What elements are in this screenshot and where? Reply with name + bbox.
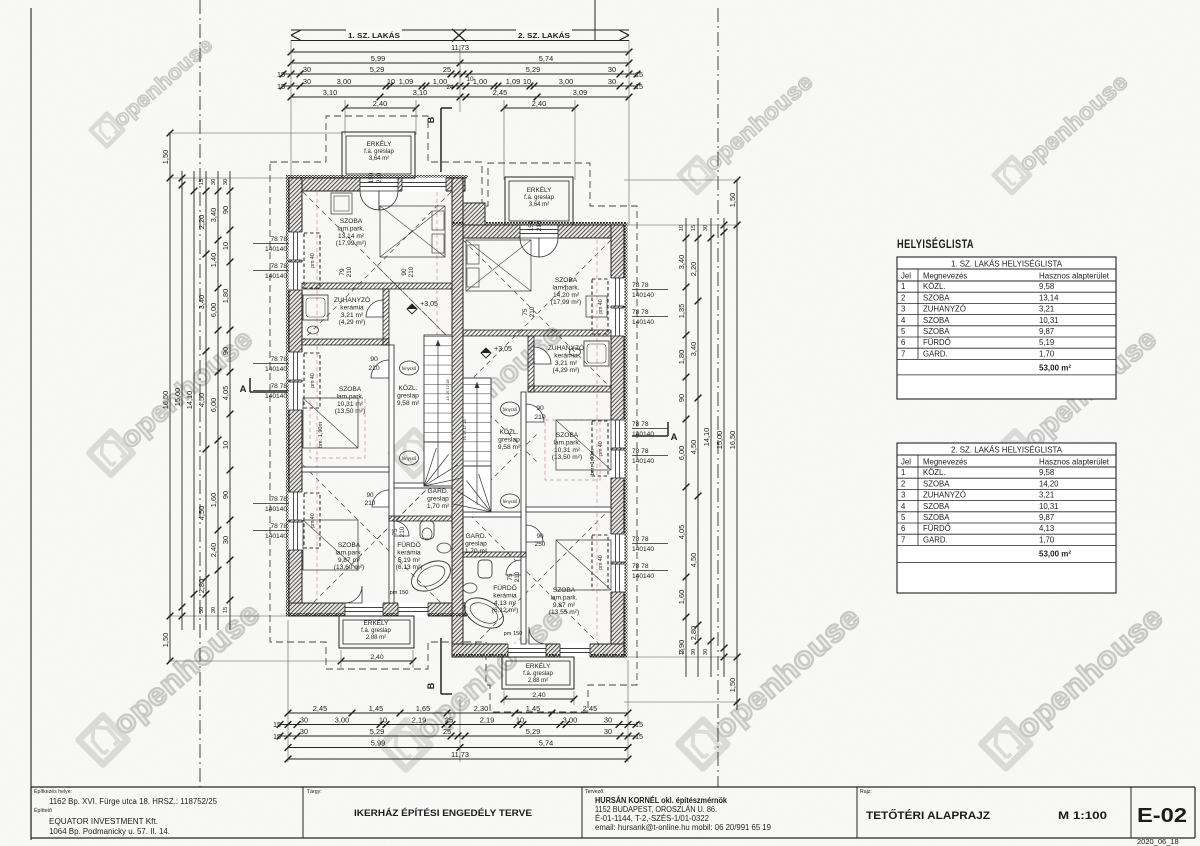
svg-text:140140: 140140 xyxy=(632,292,654,299)
svg-text:1,70 m²: 1,70 m² xyxy=(465,548,488,555)
left unit exterior wall left xyxy=(289,178,302,616)
svg-text:4,13: 4,13 xyxy=(1039,524,1054,533)
pm40 box left wall 1 xyxy=(304,233,320,288)
roof slope diagonal left unit middle xyxy=(377,266,451,340)
svg-text:GARD.: GARD. xyxy=(428,488,449,495)
svg-text:25: 25 xyxy=(443,727,451,736)
toilet right zuhanyzo xyxy=(570,348,581,356)
svg-text:IKERHÁZ ÉPÍTÉSI ENGEDÉLY TERVE: IKERHÁZ ÉPÍTÉSI ENGEDÉLY TERVE xyxy=(354,807,532,818)
svg-text:2,40: 2,40 xyxy=(532,99,546,108)
svg-text:ERKÉLY: ERKÉLY xyxy=(367,139,392,148)
svg-text:15: 15 xyxy=(635,70,643,79)
svg-text:f.á. greslap: f.á. greslap xyxy=(364,149,394,155)
svg-text:+3,05: +3,05 xyxy=(494,346,512,353)
svg-text:90: 90 xyxy=(221,347,230,355)
svg-text:30: 30 xyxy=(199,607,205,613)
right unit bottom szoba partition xyxy=(526,507,611,512)
site boundary dash-dot line right xyxy=(717,8,719,787)
svg-text:4,50: 4,50 xyxy=(197,393,206,407)
bed left middle room xyxy=(303,398,358,448)
svg-text:79: 79 xyxy=(339,268,346,276)
svg-text:210: 210 xyxy=(365,500,376,507)
svg-text:15 16 17 18: 15 16 17 18 xyxy=(462,419,467,441)
fenycso symbol left 1 xyxy=(400,361,419,375)
svg-text:10,31: 10,31 xyxy=(1039,502,1059,511)
svg-text:15: 15 xyxy=(223,607,229,613)
extension lines right dims xyxy=(624,179,739,181)
svg-text:210: 210 xyxy=(534,414,546,421)
svg-text:75: 75 xyxy=(392,528,399,536)
svg-text:f.á. greslap: f.á. greslap xyxy=(524,195,554,201)
svg-text:5: 5 xyxy=(901,327,906,336)
svg-text:email: hursank@t-online.hu mo: email: hursank@t-online.hu mobil: 06 20/… xyxy=(595,823,771,832)
svg-text:5,19 m²: 5,19 m² xyxy=(398,557,421,564)
svg-text:1. SZ. LAKÁS: 1. SZ. LAKÁS xyxy=(348,31,400,40)
svg-text:25: 25 xyxy=(445,715,453,724)
svg-text:(4,29 m²): (4,29 m²) xyxy=(553,367,580,374)
top dim line 5,99 / 5,74 xyxy=(291,62,629,64)
unit extent band 1.SZ.LAKAS / 2.SZ.LAKAS xyxy=(291,29,629,31)
svg-text:ZUHANYZÓ: ZUHANYZÓ xyxy=(923,491,966,500)
svg-text:78 78: 78 78 xyxy=(270,236,287,243)
svg-text:1. SZ. LAKÁS HELYISÉGLISTA: 1. SZ. LAKÁS HELYISÉGLISTA xyxy=(951,259,1062,269)
right wall windows pair 2 xyxy=(611,420,625,448)
svg-text:10: 10 xyxy=(516,715,524,724)
roof slope diagonal right unit middle xyxy=(463,388,537,462)
svg-text:1,50: 1,50 xyxy=(728,678,737,692)
svg-text:10: 10 xyxy=(221,242,230,250)
bottom dim 5,99 / 5,74 xyxy=(288,747,628,749)
right dim chain 15,00 xyxy=(723,218,725,677)
svg-text:fénycső: fénycső xyxy=(503,407,518,412)
left unit corridor wall xyxy=(389,345,394,603)
left unit stairs xyxy=(424,335,452,442)
bottom dim 30/5,29/25/5,29/30 xyxy=(280,735,636,737)
svg-text:3,21 m²: 3,21 m² xyxy=(555,360,578,367)
svg-text:lam.park.: lam.park. xyxy=(337,225,364,232)
svg-text:2,40: 2,40 xyxy=(373,99,387,108)
svg-text:pm 150: pm 150 xyxy=(504,631,523,637)
left wall windows pair 2 xyxy=(289,352,303,380)
dim 2,40 below right bottom balcony xyxy=(504,698,574,700)
svg-text:5,29: 5,29 xyxy=(526,65,540,74)
svg-text:SZOBA: SZOBA xyxy=(555,277,578,284)
svg-text:90: 90 xyxy=(536,405,544,412)
svg-text:6: 6 xyxy=(901,524,905,533)
svg-text:ERKÉLY: ERKÉLY xyxy=(527,185,552,194)
top dim line 3,10/3,10/2,45/3,09 xyxy=(291,96,629,98)
svg-text:SZOBA: SZOBA xyxy=(340,218,363,225)
svg-text:ZUHANYZÓ: ZUHANYZÓ xyxy=(334,295,370,304)
left unit zuhanyzo right wall xyxy=(383,289,389,345)
svg-text:2,19: 2,19 xyxy=(480,715,494,724)
door arc left furdo xyxy=(394,521,409,536)
bed right top room xyxy=(466,240,531,291)
svg-text:1,70: 1,70 xyxy=(1039,349,1055,358)
svg-text:140140: 140140 xyxy=(632,546,654,553)
svg-text:10,31 m²: 10,31 m² xyxy=(554,447,581,454)
watermark bottom-center xyxy=(679,600,867,769)
svg-text:140140: 140140 xyxy=(632,431,654,438)
svg-text:5,29: 5,29 xyxy=(526,727,540,736)
svg-text:140140: 140140 xyxy=(632,319,654,326)
svg-text:15: 15 xyxy=(635,732,643,741)
svg-text:5: 5 xyxy=(901,513,906,522)
sink right furdo xyxy=(463,583,477,593)
svg-text:90: 90 xyxy=(677,394,686,402)
svg-text:GARD.: GARD. xyxy=(923,349,948,358)
svg-text:pm 150: pm 150 xyxy=(390,590,409,596)
toilet right furdo xyxy=(478,560,492,578)
left unit furdo top wall xyxy=(389,516,452,521)
svg-text:ERKÉLY: ERKÉLY xyxy=(526,661,551,670)
svg-text:KÖZL.: KÖZL. xyxy=(499,428,518,436)
fenycso symbol right 2 xyxy=(501,494,520,508)
svg-text:pm 40: pm 40 xyxy=(598,441,604,456)
svg-text:2,40: 2,40 xyxy=(532,692,545,699)
svg-text:10: 10 xyxy=(679,225,685,231)
svg-text:ZUHANYZÓ: ZUHANYZÓ xyxy=(923,305,966,314)
toilet left furdo xyxy=(420,521,434,539)
svg-text:3,64 m²: 3,64 m² xyxy=(529,202,549,208)
svg-text:75: 75 xyxy=(507,573,514,581)
svg-text:fénycső: fénycső xyxy=(402,456,417,461)
svg-text:fénycső: fénycső xyxy=(503,499,518,504)
svg-text:30: 30 xyxy=(300,727,308,736)
svg-text:15: 15 xyxy=(273,720,281,729)
svg-text:4,05: 4,05 xyxy=(677,525,686,539)
left dim chain 14,10 xyxy=(193,171,195,630)
svg-text:3,40: 3,40 xyxy=(689,342,698,356)
svg-text:EQUATOR INVESTMENT Kft.: EQUATOR INVESTMENT Kft. xyxy=(49,817,158,826)
right unit zuhanyzo bottom wall xyxy=(528,386,611,392)
svg-text:90: 90 xyxy=(221,491,230,499)
svg-text:210: 210 xyxy=(536,220,543,231)
left unit top wall window xyxy=(402,178,446,192)
right unit bottom balcony ERKELY xyxy=(502,657,574,689)
svg-text:pm 40: pm 40 xyxy=(310,513,316,528)
svg-text:5,99: 5,99 xyxy=(371,54,385,63)
bed right middle room xyxy=(556,420,611,470)
svg-text:78 78: 78 78 xyxy=(270,383,287,390)
svg-text:kerámia: kerámia xyxy=(340,304,364,311)
svg-text:3,00: 3,00 xyxy=(335,715,349,724)
svg-text:pm 40: pm 40 xyxy=(598,555,604,570)
svg-text:14,20: 14,20 xyxy=(1039,479,1059,488)
svg-text:15,00: 15,00 xyxy=(173,388,182,407)
svg-text:30: 30 xyxy=(703,649,709,655)
svg-text:SZOBA: SZOBA xyxy=(923,327,950,336)
svg-text:3: 3 xyxy=(901,305,905,314)
left unit gard partition top xyxy=(394,483,452,488)
svg-text:1: 1 xyxy=(901,468,905,477)
door arc right zuhanyzo xyxy=(534,347,551,364)
dim 2,40 below left bottom balcony xyxy=(341,660,413,662)
svg-text:140140: 140140 xyxy=(265,506,287,513)
svg-text:1,80: 1,80 xyxy=(221,289,230,303)
svg-text:30: 30 xyxy=(691,649,697,655)
svg-text:15: 15 xyxy=(273,732,281,741)
svg-text:4,13 m²: 4,13 m² xyxy=(494,600,517,607)
svg-text:78 78: 78 78 xyxy=(632,448,649,455)
svg-text:2,80: 2,80 xyxy=(689,626,698,640)
watermark mid-left xyxy=(89,323,258,475)
section marker B bottom xyxy=(440,638,442,694)
svg-text:kerámia: kerámia xyxy=(397,549,421,556)
svg-text:Tervező:: Tervező: xyxy=(585,789,605,795)
svg-text:1,40: 1,40 xyxy=(209,253,218,267)
svg-text:9,58: 9,58 xyxy=(1039,282,1054,291)
svg-text:1152 BUDAPEST, OROSZLÁN U. 86.: 1152 BUDAPEST, OROSZLÁN U. 86. xyxy=(595,805,717,814)
svg-text:30: 30 xyxy=(211,179,217,185)
table 1.SZ.LAKAS helyiseglista xyxy=(897,257,1116,399)
top dim line 30/3,00/10/1,09/1,00/1,00/1,09/10/3,00/30 xyxy=(283,85,637,87)
left unit top balcony ERKELY xyxy=(342,132,415,178)
svg-text:ZUHANYZÓ: ZUHANYZÓ xyxy=(548,343,584,352)
shower tray right zuhanyzo xyxy=(584,341,609,366)
level marker +3,05 right unit xyxy=(481,348,491,358)
svg-text:30: 30 xyxy=(604,727,612,736)
svg-text:1064 Bp. Podmanicky u. 57. II.: 1064 Bp. Podmanicky u. 57. II. 14. xyxy=(49,827,170,836)
door arc left mid room xyxy=(371,360,389,378)
svg-text:2,80: 2,80 xyxy=(197,579,206,593)
watermark bottom-center-left xyxy=(382,601,570,770)
svg-text:2,30: 2,30 xyxy=(474,704,488,713)
svg-text:30: 30 xyxy=(608,65,616,74)
svg-text:14,10: 14,10 xyxy=(185,391,194,410)
left unit zuhanyzo bottom wall xyxy=(302,339,389,345)
svg-text:90: 90 xyxy=(221,206,230,214)
watermark mid-right xyxy=(993,323,1162,475)
svg-text:2,45: 2,45 xyxy=(313,704,327,713)
svg-text:150: 150 xyxy=(528,220,535,231)
svg-text:fénycső: fénycső xyxy=(402,366,417,371)
svg-text:2,88 m²: 2,88 m² xyxy=(366,635,386,641)
svg-text:bm: 1,90m: bm: 1,90m xyxy=(318,421,324,448)
svg-text:pm 40: pm 40 xyxy=(598,299,604,314)
left wall windows pair 3 xyxy=(289,492,303,520)
svg-text:3,09: 3,09 xyxy=(573,88,587,97)
svg-text:greslap: greslap xyxy=(427,495,449,502)
left dim chain segments c xyxy=(229,171,231,630)
svg-text:10: 10 xyxy=(221,441,230,449)
svg-text:9,87: 9,87 xyxy=(1039,327,1054,336)
extension lines top dims xyxy=(290,40,292,178)
svg-text:2,88 m²: 2,88 m² xyxy=(528,678,548,684)
svg-text:3,00: 3,00 xyxy=(563,715,577,724)
fenycso symbol right 1 xyxy=(501,402,520,416)
svg-text:HURSÁN KORNÉL okl. építészmérn: HURSÁN KORNÉL okl. építészmérnök xyxy=(595,796,728,805)
left unit exterior wall bottom xyxy=(289,603,465,616)
svg-text:5,74: 5,74 xyxy=(539,54,553,63)
svg-text:2,45: 2,45 xyxy=(583,704,597,713)
svg-text:3,10: 3,10 xyxy=(413,88,427,97)
svg-text:B: B xyxy=(426,116,436,123)
svg-text:3,00: 3,00 xyxy=(337,77,351,86)
right unit top balcony ERKELY xyxy=(505,177,573,225)
left unit bottom window xyxy=(398,603,428,617)
svg-text:210: 210 xyxy=(368,365,380,372)
svg-text:1,50: 1,50 xyxy=(728,193,737,207)
right dim chain total 16,50 xyxy=(736,180,738,710)
fenycso symbol left 2 xyxy=(400,451,419,465)
svg-text:Jel: Jel xyxy=(901,458,911,467)
svg-text:2,45: 2,45 xyxy=(493,88,507,97)
svg-text:greslap: greslap xyxy=(397,392,419,399)
svg-text:30: 30 xyxy=(703,225,709,231)
bathtub left furdo xyxy=(406,555,455,598)
fold mark line top xyxy=(594,0,596,40)
svg-text:1: 1 xyxy=(901,282,905,291)
svg-text:6,00: 6,00 xyxy=(677,446,686,460)
door arc left balcony french doors xyxy=(360,191,379,210)
pm40 box left wall 2 xyxy=(304,353,320,408)
svg-text:Építkezés helye:: Építkezés helye: xyxy=(34,788,72,795)
svg-text:FÜRDŐ: FÜRDŐ xyxy=(923,524,951,533)
svg-text:lam.park.: lam.park. xyxy=(336,393,363,400)
table 2.SZ.LAKAS helyiseglista xyxy=(897,443,1116,593)
site boundary dash-dot line left xyxy=(199,0,201,787)
level marker +3,05 left unit xyxy=(407,304,417,314)
door arc right bottom room xyxy=(526,525,543,542)
svg-text:SZOBA: SZOBA xyxy=(923,293,950,302)
bed left top room xyxy=(380,206,445,257)
right wall windows pair 1 xyxy=(611,278,625,306)
svg-text:(4,29 m²): (4,29 m²) xyxy=(339,319,366,326)
top dim line 11,73 xyxy=(291,51,629,53)
door arc right balcony french doors xyxy=(520,238,539,257)
svg-text:greslap: greslap xyxy=(498,436,520,443)
svg-text:150: 150 xyxy=(368,172,375,183)
svg-text:A: A xyxy=(240,384,247,395)
svg-text:140140: 140140 xyxy=(632,458,654,465)
svg-text:1,50: 1,50 xyxy=(161,150,170,164)
svg-text:7: 7 xyxy=(901,535,905,544)
svg-text:SZOBA: SZOBA xyxy=(923,316,950,325)
pm40 box left wall 3 xyxy=(304,493,320,548)
svg-text:(13,55 m²): (13,55 m²) xyxy=(549,609,579,616)
svg-text:15 16 17 18: 15 16 17 18 xyxy=(445,379,450,401)
svg-text:7: 7 xyxy=(901,349,905,358)
svg-text:6: 6 xyxy=(901,338,905,347)
left dim chain segments b xyxy=(217,171,219,630)
svg-text:+3,05: +3,05 xyxy=(420,301,438,308)
svg-text:90: 90 xyxy=(366,492,374,499)
svg-text:Jel: Jel xyxy=(901,272,911,281)
svg-text:pm 40: pm 40 xyxy=(310,373,316,388)
watermark top-left xyxy=(91,33,218,146)
bed right bottom room xyxy=(556,540,611,590)
svg-text:f.á. greslap: f.á. greslap xyxy=(523,671,553,677)
svg-text:1,00: 1,00 xyxy=(433,77,447,86)
svg-text:1,60: 1,60 xyxy=(677,590,686,604)
svg-text:6,00: 6,00 xyxy=(209,303,218,317)
left dim chain 15,00 xyxy=(181,171,183,630)
svg-text:greslap: greslap xyxy=(465,540,487,547)
svg-text:3,00: 3,00 xyxy=(559,77,573,86)
svg-text:24: 24 xyxy=(447,84,454,91)
watermark top-center xyxy=(679,69,818,193)
svg-text:4,50: 4,50 xyxy=(689,440,698,454)
svg-text:78 78: 78 78 xyxy=(270,356,287,363)
svg-text:kerámia: kerámia xyxy=(493,592,517,599)
left unit bottom balcony door xyxy=(345,603,383,617)
watermark bottom-left xyxy=(79,596,267,765)
svg-text:53,00 m²: 53,00 m² xyxy=(1039,363,1071,372)
door arc right furdo xyxy=(506,560,521,575)
svg-text:B: B xyxy=(426,682,436,689)
svg-text:15: 15 xyxy=(635,82,643,91)
svg-text:5,19: 5,19 xyxy=(1039,338,1054,347)
svg-text:4,50: 4,50 xyxy=(197,506,206,520)
svg-text:9,87: 9,87 xyxy=(1039,513,1054,522)
svg-text:SZOBA: SZOBA xyxy=(923,513,950,522)
svg-text:30: 30 xyxy=(211,607,217,613)
svg-text:14,10: 14,10 xyxy=(702,428,711,447)
svg-text:2,19: 2,19 xyxy=(412,715,426,724)
right unit bottom window xyxy=(560,644,590,658)
svg-text:210: 210 xyxy=(408,266,415,277)
svg-text:1,00: 1,00 xyxy=(473,77,487,86)
svg-text:30: 30 xyxy=(303,65,311,74)
svg-text:140140: 140140 xyxy=(265,533,287,540)
svg-text:1,80: 1,80 xyxy=(677,350,686,364)
bottom dim 2,45/1,45/1,65/2,30/1,45/2,45 xyxy=(288,712,628,714)
right unit exterior wall top xyxy=(452,225,624,238)
section marker B top xyxy=(440,108,442,172)
svg-text:140140: 140140 xyxy=(632,573,654,580)
door arc left zuhanyzo xyxy=(366,300,383,317)
sink left furdo xyxy=(437,543,451,553)
left unit exterior wall top xyxy=(289,178,465,191)
svg-text:11,73: 11,73 xyxy=(451,750,469,759)
svg-text:lam.park.: lam.park. xyxy=(552,284,579,291)
bed left bottom room xyxy=(303,520,358,570)
headroom dashed lines right unit xyxy=(596,240,598,640)
svg-text:A: A xyxy=(671,432,678,443)
svg-text:10: 10 xyxy=(523,77,531,86)
svg-text:78 78: 78 78 xyxy=(632,309,649,316)
right unit zuhanyzo left wall xyxy=(528,336,534,392)
svg-text:210: 210 xyxy=(399,526,406,537)
svg-text:75: 75 xyxy=(522,308,529,316)
svg-text:30: 30 xyxy=(604,715,612,724)
svg-text:1,65: 1,65 xyxy=(416,704,430,713)
svg-text:KÖZL.: KÖZL. xyxy=(923,468,946,477)
svg-text:5,74: 5,74 xyxy=(539,738,553,747)
door arc right bottom balcony xyxy=(529,627,546,644)
shower tray left zuhanyzo xyxy=(303,295,328,320)
right unit corridor wall xyxy=(521,392,526,644)
top dim 2,40 left balcony xyxy=(345,107,416,109)
toilet left zuhanyzo xyxy=(308,326,319,334)
svg-text:lam.park.: lam.park. xyxy=(553,439,580,446)
svg-text:78 78: 78 78 xyxy=(632,563,649,570)
svg-text:Építtető: Építtető xyxy=(34,807,52,814)
roof slope diagonals left unit top room xyxy=(303,192,451,340)
door arc left bottom room xyxy=(372,490,389,507)
svg-text:FÜRDŐ: FÜRDŐ xyxy=(923,338,951,347)
right unit top balcony door opening xyxy=(520,225,558,239)
svg-text:FÜRDŐ: FÜRDŐ xyxy=(493,583,516,592)
right unit furdo top wall xyxy=(463,552,526,557)
svg-text:78 78: 78 78 xyxy=(632,536,649,543)
svg-text:30: 30 xyxy=(300,715,308,724)
svg-text:140140: 140140 xyxy=(265,273,287,280)
svg-text:3,21: 3,21 xyxy=(1039,491,1054,500)
svg-text:1,50: 1,50 xyxy=(161,633,170,647)
svg-text:210: 210 xyxy=(514,571,521,582)
